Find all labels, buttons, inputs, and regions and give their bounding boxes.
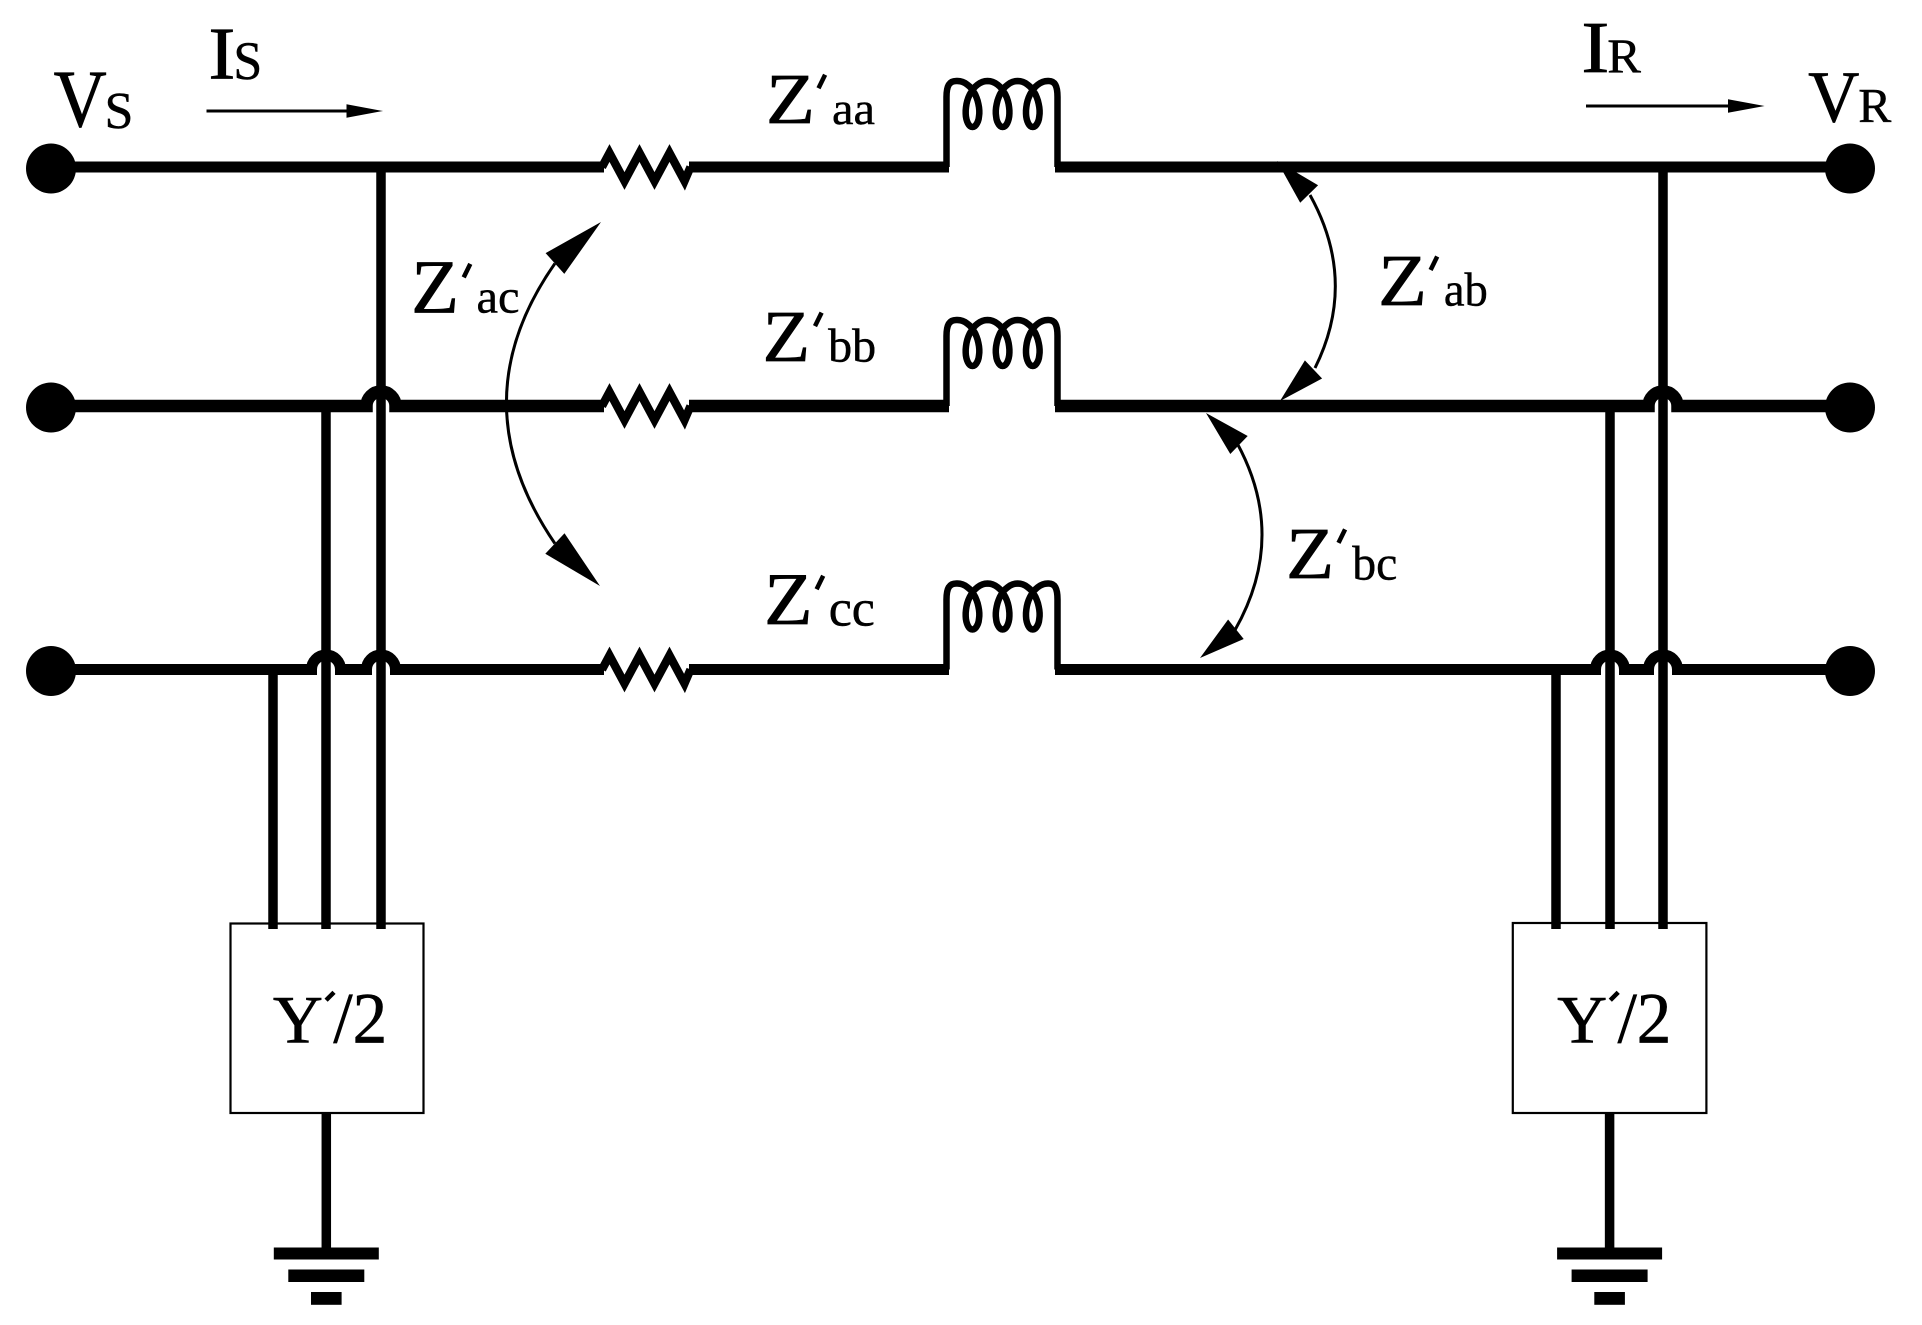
svg-text:R: R [1858,79,1891,133]
svg-text:R: R [1607,29,1642,83]
svg-text:Z: Z [1286,513,1334,594]
svg-text:Y: Y [273,982,323,1057]
svg-text:I: I [1581,8,1609,89]
svg-text:ab: ab [1444,264,1488,317]
svg-text:V: V [54,54,107,144]
svg-text:bb: bb [828,321,876,373]
svg-text:V: V [1808,57,1859,138]
svg-text:S: S [104,83,133,140]
svg-text:Z: Z [766,59,815,140]
svg-text:bc: bc [1352,537,1397,590]
svg-text:cc: cc [829,581,875,638]
svg-text:ac: ac [476,271,519,323]
svg-text:Z: Z [1378,240,1427,321]
svg-text:/2: /2 [1618,979,1672,1059]
svg-text:Z: Z [411,244,459,329]
svg-text:Z: Z [763,297,811,377]
svg-text:/2: /2 [333,979,387,1059]
svg-text:Z: Z [764,559,813,641]
svg-text:I: I [208,12,235,94]
svg-text:S: S [233,32,262,91]
svg-text:Y: Y [1557,982,1607,1057]
svg-text:aa: aa [832,84,875,134]
